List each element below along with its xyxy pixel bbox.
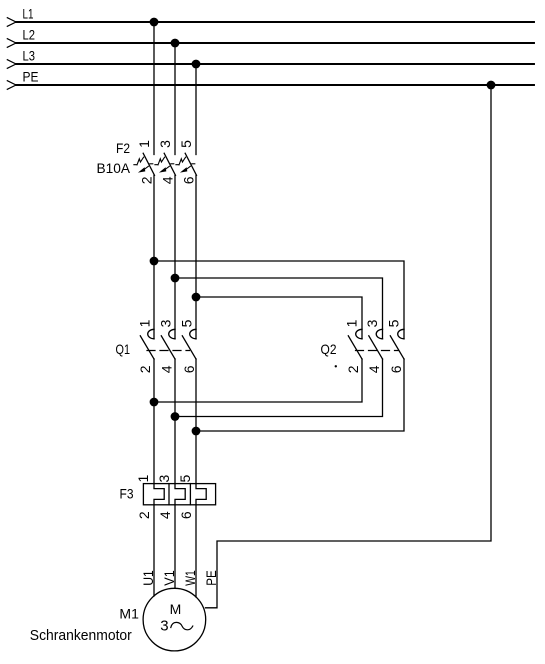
svg-text:2: 2 — [345, 365, 361, 373]
contactor Q2 pole 1 — [348, 329, 362, 359]
svg-text:Q2: Q2 — [321, 341, 337, 357]
contactor Q1 pole 3 — [182, 329, 196, 359]
contactor Q1 pole 2 — [161, 329, 175, 359]
svg-text:1: 1 — [137, 319, 153, 327]
svg-text:2: 2 — [139, 176, 155, 184]
overload relay F3 body — [143, 484, 215, 505]
svg-text:3: 3 — [158, 319, 174, 327]
F3 heater pole 2 — [175, 484, 185, 505]
breaker F2 pole 3 — [176, 153, 197, 175]
svg-text:4: 4 — [366, 365, 382, 373]
junction L2 tap — [171, 39, 180, 48]
svg-text:Q1: Q1 — [116, 341, 131, 357]
svg-text:5: 5 — [177, 474, 193, 482]
svg-text:2: 2 — [137, 365, 153, 373]
svg-text:1: 1 — [344, 319, 360, 327]
wire F3 to motor V1 — [174, 505, 176, 589]
svg-text:F2: F2 — [116, 140, 130, 156]
junction node above Q1 pole1 — [150, 257, 159, 266]
wire branch L3 to Q2 pole1 — [196, 297, 362, 339]
contactor Q1 pole 1 — [140, 329, 154, 359]
wire F2 to Q1 pole2 — [174, 175, 176, 338]
svg-text:4: 4 — [159, 365, 175, 373]
svg-text:1: 1 — [135, 474, 151, 482]
svg-text:5: 5 — [386, 319, 402, 327]
wire Q2 pole2 return — [175, 359, 383, 417]
svg-text:4: 4 — [157, 511, 173, 519]
rail PE — [7, 81, 534, 90]
junction PE tap — [487, 81, 496, 90]
svg-text:3: 3 — [157, 140, 173, 148]
wire Q2 pole1 return — [154, 359, 362, 402]
wire L2 to F2 — [174, 43, 176, 155]
wire Q1 pole1 to F3 — [153, 359, 155, 484]
svg-text:4: 4 — [160, 176, 176, 184]
svg-text:L3: L3 — [23, 48, 36, 64]
wire F3 to motor W1 — [195, 505, 197, 597]
svg-text:L2: L2 — [23, 27, 36, 43]
wire F2 to Q1 pole3 — [195, 175, 197, 338]
wire Q2 pole3 return — [196, 359, 404, 431]
wire L3 to F2 — [195, 64, 197, 155]
svg-text:V1: V1 — [161, 570, 177, 586]
rail L1 — [7, 18, 534, 27]
rail L3 — [7, 60, 534, 69]
wire Q1 pole2 to F3 — [174, 359, 176, 484]
svg-text:5: 5 — [178, 140, 194, 148]
Q2 mechanical link (dashed) — [356, 350, 399, 352]
F3 heater pole 3 — [196, 484, 206, 505]
svg-text:6: 6 — [178, 511, 194, 519]
breaker F2 pole 2 — [155, 153, 176, 175]
junction node below Q1 pole2 — [171, 412, 180, 421]
Q1 mechanical link (dashed) — [147, 350, 190, 352]
PE wire to motor — [206, 85, 492, 608]
svg-text:B10A: B10A — [97, 160, 131, 176]
svg-text:U1: U1 — [140, 570, 156, 586]
svg-text:3: 3 — [156, 474, 172, 482]
svg-text:1: 1 — [136, 140, 152, 148]
svg-text:PE: PE — [23, 69, 39, 85]
stray dot near Q2 — [335, 365, 337, 367]
svg-text:W1: W1 — [182, 570, 198, 586]
wire F2 to Q1 pole1 — [153, 175, 155, 338]
rail L2 — [7, 39, 534, 48]
svg-text:Schrankenmotor: Schrankenmotor — [30, 627, 132, 644]
junction node above Q1 pole3 — [192, 293, 201, 302]
motor M1 circle — [143, 588, 206, 651]
F3 heater pole 1 — [154, 484, 164, 505]
junction node below Q1 pole3 — [192, 427, 201, 436]
wire Q1 pole3 to F3 — [195, 359, 197, 484]
svg-text:6: 6 — [181, 176, 197, 184]
svg-text:3: 3 — [160, 618, 168, 635]
svg-text:2: 2 — [136, 511, 152, 519]
wire branch L2 to Q2 pole2 — [175, 278, 383, 339]
junction node above Q1 pole2 — [171, 274, 180, 283]
contactor Q2 pole 2 — [369, 329, 383, 359]
svg-text:M1: M1 — [119, 606, 139, 622]
wire F3 to motor U1 — [153, 505, 155, 596]
contactor Q2 pole 3 — [390, 329, 404, 359]
svg-text:6: 6 — [388, 365, 404, 373]
junction L3 tap — [192, 60, 201, 69]
wire L1 to F2 — [153, 22, 155, 155]
svg-text:5: 5 — [179, 319, 195, 327]
wire branch L1 to Q2 pole3 — [154, 261, 404, 339]
svg-text:F3: F3 — [120, 486, 134, 502]
junction node below Q1 pole1 — [150, 398, 159, 407]
svg-text:6: 6 — [181, 365, 197, 373]
svg-text:M: M — [170, 601, 182, 617]
junction L1 tap — [150, 18, 159, 27]
svg-text:L1: L1 — [23, 6, 34, 22]
svg-text:3: 3 — [364, 319, 380, 327]
motor symbol tilde — [171, 622, 193, 629]
breaker F2 pole 1 — [134, 153, 155, 175]
